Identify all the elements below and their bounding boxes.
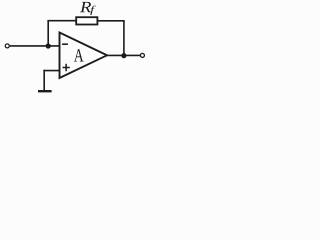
plus sign (non-inverting input)	[63, 67, 70, 69]
op-amp U1 (triangle)	[60, 33, 108, 79]
label Rf	[80, 2, 91, 12]
minus sign (inverting input)	[62, 43, 68, 45]
resistor R_f (box)	[76, 17, 97, 24]
wire: input terminal to inverting input	[10, 45, 60, 47]
wire: non-inverting input from ground	[43, 70, 59, 72]
label A (gain)	[74, 49, 84, 61]
wire: junction up to feedback row	[47, 21, 49, 46]
wire: op-amp output	[107, 54, 141, 56]
wire: feedback top left segment	[47, 20, 76, 22]
wire: feedback top right segment	[97, 20, 124, 22]
node: input junction	[46, 43, 51, 48]
wire: down to ground	[43, 70, 45, 91]
input terminal (open circle)	[5, 44, 9, 48]
wire: feedback down to output node	[123, 21, 125, 56]
node: output junction	[121, 53, 126, 58]
output terminal (open circle)	[140, 53, 144, 57]
ground	[38, 90, 52, 92]
